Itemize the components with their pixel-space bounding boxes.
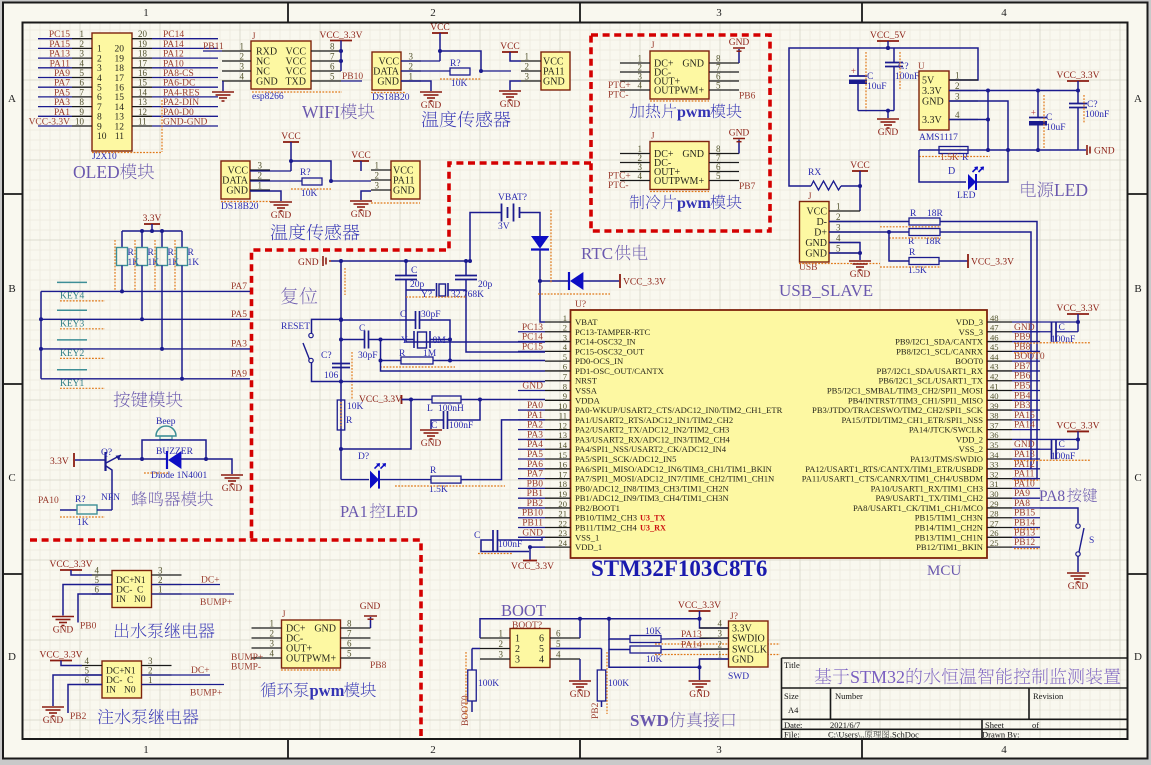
pin 2 mcu bbox=[545, 331, 571, 333]
wire stem bbox=[1077, 431, 1079, 449]
svg-text:GND: GND bbox=[53, 626, 74, 636]
svg-text:of: of bbox=[1032, 720, 1039, 730]
svg-text:18: 18 bbox=[558, 479, 567, 489]
resistor RX zigzag bbox=[811, 181, 841, 190]
wire D+ to PA12 bbox=[940, 232, 1031, 469]
svg-text:PB6: PB6 bbox=[739, 92, 756, 102]
svg-text:D-: D- bbox=[816, 217, 827, 228]
svg-text:6: 6 bbox=[563, 362, 568, 372]
svg-text:N0: N0 bbox=[134, 595, 146, 605]
svg-text:32.768K: 32.768K bbox=[451, 290, 484, 300]
wire DATA to PA11 sensor bbox=[481, 70, 511, 72]
svg-text:14: 14 bbox=[558, 440, 567, 450]
svg-text:PA14: PA14 bbox=[681, 641, 702, 651]
svg-text:PB2: PB2 bbox=[70, 712, 87, 722]
capacitor C 10uF electrolytic 2 bbox=[1037, 91, 1039, 118]
pin 8 J2X10 bbox=[72, 106, 92, 108]
svg-text:RTC: RTC bbox=[581, 244, 613, 263]
module title power LED bbox=[1021, 181, 1036, 196]
svg-text:R?: R? bbox=[75, 495, 86, 505]
capacitor C? 100nF 2 bbox=[1077, 91, 1079, 104]
pin 1 esp8266 bbox=[222, 50, 251, 52]
svg-text:5: 5 bbox=[95, 575, 100, 585]
svg-text:17: 17 bbox=[558, 469, 567, 479]
junction bbox=[479, 69, 483, 73]
ground swd bbox=[689, 680, 711, 682]
sheet title text bbox=[815, 668, 832, 684]
wire BUMP+ out bbox=[152, 593, 235, 595]
svg-text:3: 3 bbox=[258, 161, 263, 171]
wire battery right bbox=[520, 213, 541, 239]
pin 14 J2X10 bbox=[132, 96, 152, 98]
wire pin4 to node bbox=[949, 119, 988, 121]
module title cooler pwm bbox=[630, 195, 644, 210]
pin 6 J2X10 bbox=[72, 86, 92, 88]
svg-text:B: B bbox=[8, 283, 15, 295]
svg-text:6: 6 bbox=[347, 639, 352, 649]
svg-text:32: 32 bbox=[990, 469, 999, 479]
svg-text:10K: 10K bbox=[645, 627, 662, 637]
svg-text:GND: GND bbox=[421, 101, 442, 111]
svg-text:VCC_3.3V: VCC_3.3V bbox=[678, 601, 721, 611]
svg-text:C: C bbox=[8, 472, 15, 484]
svg-text:1: 1 bbox=[955, 71, 960, 81]
capacitor C 30pF (top) bbox=[415, 311, 417, 329]
pin 43 mcu bbox=[987, 370, 1012, 372]
wire key row KEY2 bbox=[41, 348, 162, 350]
svg-text:PA4-RES: PA4-RES bbox=[163, 88, 200, 98]
power port VCC_3.3V wifi bbox=[330, 40, 352, 42]
wire D- row bbox=[829, 221, 909, 223]
svg-text:PA9/USART1_TX/TIM1_CH2: PA9/USART1_TX/TIM1_CH2 bbox=[875, 493, 983, 503]
resistor R 1K pullup 1 bbox=[121, 231, 123, 248]
pin 6 relay bbox=[82, 684, 102, 686]
svg-text:31: 31 bbox=[990, 479, 999, 489]
svg-text:6: 6 bbox=[85, 675, 90, 685]
svg-text:VSS_2: VSS_2 bbox=[959, 444, 983, 454]
svg-text:9: 9 bbox=[97, 122, 102, 132]
svg-text:3: 3 bbox=[955, 92, 960, 102]
svg-text:VCC_3.3V: VCC_3.3V bbox=[49, 560, 92, 570]
pin 17 mcu bbox=[545, 478, 571, 480]
svg-text:1.5K: 1.5K bbox=[908, 266, 927, 276]
wire VCC to pin1 bbox=[510, 52, 521, 61]
pin 3 boot bbox=[480, 658, 510, 660]
svg-text:30pF: 30pF bbox=[421, 310, 441, 320]
wire key row KEY3 bbox=[41, 318, 142, 320]
svg-text:9: 9 bbox=[80, 107, 85, 117]
svg-text:14: 14 bbox=[115, 103, 125, 113]
svg-text:PC14-OSC32_IN: PC14-OSC32_IN bbox=[575, 337, 636, 347]
svg-text:PB0: PB0 bbox=[80, 622, 97, 632]
svg-text:VCC: VCC bbox=[351, 151, 371, 161]
wire sensor1 GND down bbox=[401, 81, 431, 91]
svg-text:KEY1: KEY1 bbox=[60, 379, 85, 389]
svg-text:11: 11 bbox=[559, 411, 567, 421]
svg-text:PA10/USART1_RX/TIM1_CH3: PA10/USART1_RX/TIM1_CH3 bbox=[871, 483, 983, 493]
squiggles under right ext labels bbox=[1014, 342, 1040, 344]
svg-text:PB13/TIM1_CH1N: PB13/TIM1_CH1N bbox=[915, 532, 984, 542]
svg-text:D?: D? bbox=[358, 452, 369, 462]
svg-text:16: 16 bbox=[138, 68, 148, 78]
wire vcc to pin4 bbox=[71, 570, 92, 575]
wire gnd stem bbox=[887, 111, 889, 118]
svg-text:PA11/USART1_CTS/CANRX/TIM1_CH4: PA11/USART1_CTS/CANRX/TIM1_CH4/USBDM bbox=[802, 474, 984, 484]
pin 1 boot bbox=[480, 637, 510, 639]
svg-text:GND: GND bbox=[570, 690, 591, 700]
resistor R 1.5K power led bbox=[939, 147, 968, 154]
pin 15 J2X10 bbox=[132, 86, 152, 88]
svg-text:PA1: PA1 bbox=[340, 502, 368, 521]
dashed partition center region bbox=[30, 163, 591, 737]
svg-text:PB10: PB10 bbox=[342, 72, 363, 82]
junction bbox=[886, 109, 890, 113]
pin 2 esp8266 bbox=[222, 60, 251, 62]
pin 4 bbox=[620, 180, 650, 182]
pin 4 relay bbox=[92, 574, 112, 576]
svg-text:PA6/SPI1_MISO/ADC12_IN6/TIM3_C: PA6/SPI1_MISO/ADC12_IN6/TIM3_CH1/TIM1_BK… bbox=[575, 464, 773, 474]
pin 42 mcu bbox=[987, 380, 1012, 382]
power port VCC (upper sensor2) bbox=[502, 51, 518, 53]
wire cap to crystal bbox=[369, 339, 415, 341]
svg-text:LED: LED bbox=[1054, 180, 1088, 200]
pin 20 mcu bbox=[545, 507, 571, 509]
pin 10 mcu bbox=[545, 409, 571, 411]
junction bbox=[986, 148, 990, 152]
wire usb gnd pin5 bbox=[829, 252, 860, 254]
svg-text:PA15: PA15 bbox=[49, 40, 70, 50]
wire led to resistor bbox=[380, 479, 431, 481]
svg-text:BUMP-: BUMP- bbox=[231, 663, 261, 673]
svg-text:PB11: PB11 bbox=[203, 42, 224, 52]
svg-text:2: 2 bbox=[836, 212, 841, 222]
svg-text:pwm: pwm bbox=[310, 681, 345, 700]
svg-text:PA3/USART2_RX/ADC12_IN3/TIM2_C: PA3/USART2_RX/ADC12_IN3/TIM2_CH4 bbox=[575, 434, 731, 444]
wire led row bbox=[341, 479, 369, 481]
pin 35 mcu bbox=[987, 448, 1012, 450]
junction bbox=[289, 159, 293, 163]
svg-text:Date:: Date: bbox=[784, 720, 802, 730]
svg-text:100nF: 100nF bbox=[895, 72, 919, 82]
power port VCC_3.3V decouple bbox=[1067, 430, 1089, 432]
svg-text:DS18B20: DS18B20 bbox=[221, 202, 259, 212]
ground relay bbox=[52, 616, 74, 618]
svg-text:esp8266: esp8266 bbox=[252, 92, 284, 102]
pin 7 J2X10 bbox=[72, 96, 92, 98]
module title circulation pump pwm bbox=[261, 682, 276, 697]
wire net PA14 bbox=[152, 47, 218, 49]
svg-text:35: 35 bbox=[990, 440, 999, 450]
wire crystal right bbox=[430, 339, 450, 341]
wire vcc to pin4 bbox=[61, 661, 82, 666]
svg-text:26: 26 bbox=[990, 528, 999, 538]
pin 5 mcu bbox=[545, 360, 571, 362]
svg-text:17: 17 bbox=[115, 74, 125, 84]
pin 5 circulation bbox=[341, 657, 371, 659]
svg-text:43: 43 bbox=[990, 362, 999, 372]
svg-text:Drawn By:: Drawn By: bbox=[982, 730, 1020, 740]
power port 3.3V keys bbox=[144, 223, 160, 225]
svg-text:J: J bbox=[651, 131, 655, 141]
pin 8 esp8266 bbox=[311, 50, 341, 52]
svg-text:5: 5 bbox=[716, 171, 721, 181]
pin 32 mcu bbox=[987, 478, 1012, 480]
switch S pa8 bbox=[1076, 524, 1080, 528]
svg-text:1: 1 bbox=[258, 181, 263, 191]
svg-text:PA8: PA8 bbox=[1039, 488, 1065, 505]
wire pullup 1 down bbox=[121, 266, 123, 292]
svg-text:GND-GND: GND-GND bbox=[163, 118, 207, 128]
svg-text:1: 1 bbox=[515, 634, 520, 645]
svg-text:U?: U? bbox=[575, 300, 586, 310]
svg-text:KEY3: KEY3 bbox=[60, 319, 85, 329]
wire VCC branch to resistor net bbox=[440, 51, 481, 71]
pin 22 mcu bbox=[545, 527, 571, 529]
svg-text:2: 2 bbox=[955, 81, 960, 91]
pin 5 J2X10 bbox=[72, 77, 92, 79]
wire diode to node bbox=[539, 250, 541, 281]
svg-text:46: 46 bbox=[990, 332, 999, 342]
pin 2 AMS1117 bbox=[949, 90, 978, 92]
svg-text:PD0-OCS_IN: PD0-OCS_IN bbox=[575, 356, 624, 366]
pin 5 boot bbox=[550, 648, 580, 650]
svg-text:8: 8 bbox=[347, 619, 352, 629]
svg-text:OLED: OLED bbox=[73, 162, 120, 182]
svg-text:PTC+: PTC+ bbox=[608, 172, 631, 182]
pin 2 boot bbox=[480, 648, 510, 650]
pin 5 USB bbox=[829, 252, 860, 254]
wire led branch bbox=[919, 150, 966, 182]
svg-text:4: 4 bbox=[270, 649, 275, 659]
svg-text:4: 4 bbox=[563, 342, 568, 352]
svg-text:2021/6/7: 2021/6/7 bbox=[830, 720, 860, 730]
power port VCC_3.3V swd bbox=[689, 610, 711, 612]
svg-text:File:: File: bbox=[784, 730, 800, 740]
svg-text:45: 45 bbox=[990, 342, 999, 352]
svg-text:PA1: PA1 bbox=[54, 108, 70, 118]
pin 45 mcu bbox=[987, 350, 1012, 352]
svg-text:3: 3 bbox=[836, 223, 841, 233]
svg-text:2: 2 bbox=[148, 666, 153, 676]
svg-text:GND: GND bbox=[922, 97, 944, 108]
switch KEY3 bbox=[57, 309, 87, 311]
svg-text:VBAT?: VBAT? bbox=[498, 193, 527, 203]
pin 11 mcu bbox=[545, 419, 571, 421]
svg-text:GND: GND bbox=[729, 129, 750, 139]
capacitor C 100nF decouple bbox=[1012, 331, 1052, 333]
svg-text:5: 5 bbox=[716, 81, 721, 91]
svg-text:GND: GND bbox=[500, 100, 521, 110]
module title buzzer bbox=[132, 491, 213, 506]
wire sensor GND down lower bbox=[250, 191, 281, 201]
pin 31 mcu bbox=[987, 487, 1012, 489]
svg-text:3: 3 bbox=[525, 72, 530, 82]
pin 4 boot bbox=[550, 658, 580, 660]
wire net VCC-3.3V bbox=[38, 125, 72, 127]
svg-text:PA0-WKUP/USART2_CTS/ADC12_IN0/: PA0-WKUP/USART2_CTS/ADC12_IN0/TIM2_CH1_E… bbox=[575, 405, 783, 415]
wire net PA10 bbox=[152, 67, 218, 69]
svg-text:8M: 8M bbox=[433, 336, 447, 346]
pin 2 USB bbox=[829, 221, 860, 223]
svg-text:PA5/SPI1_SCK/ADC12_IN5: PA5/SPI1_SCK/ADC12_IN5 bbox=[575, 454, 676, 464]
svg-text:1K: 1K bbox=[188, 258, 200, 268]
pin 23 mcu bbox=[545, 536, 571, 538]
wire pin4 to gnd bbox=[579, 659, 581, 680]
switch KEY2 bbox=[57, 339, 87, 341]
svg-text:DC+: DC+ bbox=[191, 666, 210, 676]
svg-text:2: 2 bbox=[430, 7, 436, 19]
led D power bbox=[968, 174, 976, 190]
resistor R 18R (D-) bbox=[909, 218, 940, 225]
wire net PC15 bbox=[38, 38, 72, 40]
svg-text:Q?: Q? bbox=[101, 448, 112, 458]
wire keys top rail bbox=[122, 230, 182, 232]
svg-text:B: B bbox=[1134, 283, 1141, 295]
svg-text:7: 7 bbox=[563, 372, 568, 382]
diode D rtc2 (left) bbox=[570, 272, 583, 290]
junction bbox=[339, 259, 343, 263]
wire osc to PD0 bbox=[450, 360, 545, 362]
wire to gnd buzzer bbox=[206, 459, 232, 474]
svg-text:VCC_3.3V: VCC_3.3V bbox=[1056, 71, 1099, 81]
wire DATA row bbox=[401, 70, 450, 72]
svg-text:20: 20 bbox=[558, 499, 567, 509]
svg-text:C: C bbox=[400, 310, 406, 320]
svg-text:PB15/TIM1_CH3N: PB15/TIM1_CH3N bbox=[915, 513, 984, 523]
svg-text:PA7: PA7 bbox=[54, 79, 70, 89]
pin 37 mcu bbox=[987, 429, 1012, 431]
capacitor C 100nF vss1 bbox=[542, 536, 545, 538]
svg-text:27: 27 bbox=[990, 518, 999, 528]
resistor R? 10K (lower) bbox=[302, 178, 322, 185]
pin 18 J2X10 bbox=[132, 57, 152, 59]
svg-text:PA9: PA9 bbox=[54, 69, 70, 79]
wire 10k1 to swdio bbox=[661, 638, 729, 639]
svg-text:NPN: NPN bbox=[101, 493, 120, 503]
svg-text:GND: GND bbox=[1094, 147, 1115, 157]
wire net PA3 bbox=[38, 106, 72, 108]
pin 9 J2X10 bbox=[72, 115, 92, 117]
svg-text:4: 4 bbox=[556, 650, 561, 660]
wire diode2 to vcc port bbox=[584, 280, 620, 282]
crystal Y? 32.768K bbox=[406, 289, 435, 291]
pin 36 mcu bbox=[987, 438, 1012, 440]
capacitor C? 100nF bbox=[893, 48, 895, 63]
wire pin3 gnd net bbox=[949, 101, 1008, 150]
svg-text:Number: Number bbox=[835, 691, 863, 701]
svg-text:PTC+: PTC+ bbox=[608, 81, 631, 91]
svg-text:8: 8 bbox=[97, 113, 102, 123]
svg-text:3.3V: 3.3V bbox=[143, 214, 162, 224]
ground buzzer bbox=[221, 474, 243, 476]
svg-text:C: C bbox=[127, 676, 133, 686]
svg-text:C: C bbox=[359, 324, 365, 334]
svg-text:D+: D+ bbox=[814, 228, 827, 239]
wire net PA1 bbox=[38, 115, 72, 117]
svg-text:15: 15 bbox=[115, 93, 125, 103]
svg-text:+: + bbox=[851, 66, 856, 76]
wire node vertical bbox=[987, 91, 989, 151]
svg-text:PB14/TIM1_CH2N: PB14/TIM1_CH2N bbox=[915, 523, 984, 533]
svg-text:1.5K: 1.5K bbox=[940, 153, 959, 163]
wire net PB11 bbox=[203, 50, 222, 52]
svg-text:KEY4: KEY4 bbox=[60, 291, 85, 301]
pin 4 USB bbox=[829, 242, 860, 244]
module heater pwm connector J bbox=[650, 51, 709, 99]
pin 2 bbox=[620, 71, 650, 73]
pin 39 mcu bbox=[987, 409, 1012, 411]
wire net PA4-RES bbox=[152, 96, 218, 98]
pin 4 mcu bbox=[545, 350, 571, 352]
svg-text:3: 3 bbox=[270, 639, 275, 649]
svg-text:Y?: Y? bbox=[421, 290, 432, 300]
svg-text:OUTPWM+: OUTPWM+ bbox=[286, 654, 336, 665]
svg-text:4: 4 bbox=[718, 619, 723, 629]
pin 28 mcu bbox=[987, 517, 1012, 519]
svg-text:1: 1 bbox=[718, 650, 723, 660]
svg-text:RX: RX bbox=[808, 168, 821, 178]
svg-text:2: 2 bbox=[270, 629, 275, 639]
wire vcc stem swd bbox=[700, 611, 729, 628]
resistor R 1K pullup 4 bbox=[181, 231, 183, 248]
svg-text:GND: GND bbox=[732, 655, 754, 666]
pin 9 mcu bbox=[545, 399, 571, 401]
power port VCC_3.3V rtc bbox=[619, 274, 621, 288]
wire battery left bbox=[470, 213, 502, 262]
svg-text:8: 8 bbox=[563, 381, 567, 391]
svg-text:GND: GND bbox=[360, 602, 381, 612]
svg-text:PA15/JTDI/TIM2_CH1_ETR/SPI1_NS: PA15/JTDI/TIM2_CH1_ETR/SPI1_NSS bbox=[841, 415, 983, 425]
wire DATA row lower bbox=[250, 180, 302, 182]
svg-text:33: 33 bbox=[990, 460, 999, 470]
svg-text:1: 1 bbox=[97, 45, 102, 55]
svg-text:PA13: PA13 bbox=[49, 50, 70, 60]
svg-text:VCC_3.3V: VCC_3.3V bbox=[1056, 421, 1099, 431]
svg-text:5V: 5V bbox=[922, 76, 935, 87]
svg-text:PB8: PB8 bbox=[370, 661, 387, 671]
svg-text:SWD: SWD bbox=[728, 672, 749, 682]
svg-text:25: 25 bbox=[990, 538, 999, 548]
svg-text:SWD: SWD bbox=[630, 711, 669, 730]
svg-text:PA6-DC: PA6-DC bbox=[163, 79, 195, 89]
svg-text:12: 12 bbox=[138, 107, 147, 117]
module title keys bbox=[114, 391, 183, 407]
pin 5 relay bbox=[92, 584, 112, 586]
svg-text:PA0-D0: PA0-D0 bbox=[163, 108, 194, 118]
svg-text:47: 47 bbox=[990, 323, 999, 333]
svg-text:PTC-: PTC- bbox=[608, 91, 629, 101]
wire vdda row bbox=[402, 399, 432, 401]
wire net PA9 bbox=[38, 77, 72, 79]
svg-text:GND: GND bbox=[689, 690, 710, 700]
svg-text:C?: C? bbox=[1087, 100, 1098, 110]
svg-text:L: L bbox=[427, 404, 433, 414]
wire net PC14 bbox=[152, 38, 218, 40]
junction bbox=[140, 457, 144, 461]
svg-text:36: 36 bbox=[990, 430, 999, 440]
svg-text:1K: 1K bbox=[77, 518, 89, 528]
svg-text:PA10: PA10 bbox=[38, 496, 59, 506]
wire reset gnd rail bbox=[331, 260, 466, 262]
wire net PA8-CS bbox=[152, 77, 218, 79]
wire net PA6-DC bbox=[152, 86, 218, 88]
pin 20 J2X10 bbox=[132, 38, 152, 40]
svg-text:USB_SLAVE: USB_SLAVE bbox=[779, 281, 873, 300]
wire VCC stem lower bbox=[290, 142, 292, 171]
svg-text:R: R bbox=[399, 349, 406, 359]
pin 1 bbox=[620, 62, 650, 64]
svg-text:PA14/JTCK/SWCLK: PA14/JTCK/SWCLK bbox=[909, 425, 984, 435]
